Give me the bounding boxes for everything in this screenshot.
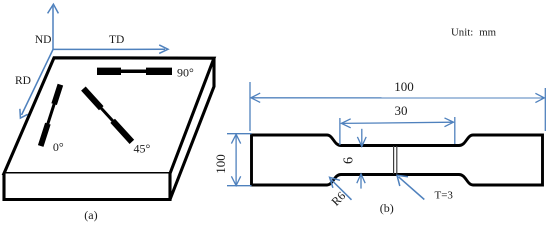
dimension 6: [357, 129, 366, 189]
RD axis: [20, 50, 53, 119]
ND axis: [48, 4, 59, 49]
svg-text:6: 6: [342, 157, 357, 164]
svg-text:90°: 90°: [177, 66, 194, 80]
svg-text:0°: 0°: [53, 140, 64, 154]
svg-text:(b): (b): [380, 201, 394, 215]
svg-text:45°: 45°: [134, 142, 151, 156]
svg-text:TD: TD: [109, 34, 124, 46]
dimension 100 horizontal: [250, 82, 545, 131]
dogbone specimen outline: [252, 135, 543, 185]
plate front face: [4, 174, 170, 200]
svg-text:30: 30: [395, 103, 408, 118]
svg-text:ND: ND: [35, 34, 52, 46]
svg-text:RD: RD: [15, 75, 31, 87]
R6 leader arrow: [330, 177, 352, 199]
svg-text:T=3: T=3: [435, 190, 454, 202]
plate right face: [170, 58, 214, 199]
weld double line marks: [393, 146, 395, 174]
svg-text:Unit:: Unit:: [451, 27, 473, 39]
dimension 30: [340, 117, 455, 145]
svg-text:(a): (a): [84, 208, 97, 222]
plate top face: [4, 58, 214, 174]
svg-text:100: 100: [213, 154, 228, 174]
dimension 100 vertical left: [227, 134, 252, 186]
specimen bar 90deg: [97, 68, 172, 75]
TD axis: [53, 45, 168, 54]
specimen bar 0deg: [38, 84, 63, 147]
specimen bar 45deg: [81, 87, 134, 144]
svg-text:R6: R6: [328, 189, 348, 209]
T=3 leader arrow: [397, 175, 424, 199]
svg-text:mm: mm: [479, 27, 496, 39]
svg-text:100: 100: [394, 79, 414, 94]
